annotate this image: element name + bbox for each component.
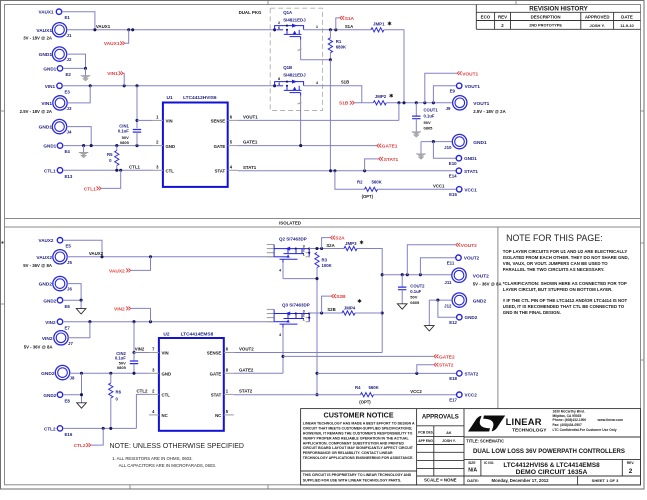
svg-text:JMP4: JMP4 [344, 306, 356, 311]
svg-text:VOUT1: VOUT1 [243, 114, 258, 119]
CTL row wire [63, 169, 153, 171]
svg-text:AK: AK [446, 431, 452, 435]
S1B wire [304, 86, 362, 103]
svg-text:E8: E8 [65, 398, 71, 403]
svg-text:VIN1: VIN1 [41, 101, 52, 107]
resistor R3 100K [315, 253, 319, 268]
svg-text:LINEAR TECHNOLOGY HAS MADE A B: LINEAR TECHNOLOGY HAS MADE A BEST EFFORT… [303, 422, 415, 426]
LT logo [468, 416, 505, 432]
svg-text:VOUT1: VOUT1 [473, 101, 489, 107]
svg-text:CIRCUIT THAT MEETS CUSTOMER-SU: CIRCUIT THAT MEETS CUSTOMER-SUPPLIED SPE… [303, 427, 413, 431]
svg-text:DUAL PKG: DUAL PKG [239, 10, 262, 15]
svg-text:0.1uF: 0.1uF [424, 114, 435, 119]
svg-text:R4: R4 [355, 385, 361, 390]
svg-text:S2B: S2B [336, 294, 346, 300]
svg-text:COUT2: COUT2 [410, 283, 425, 288]
svg-text:U1: U1 [167, 95, 173, 101]
svg-text:Fax: (408)434-0507: Fax: (408)434-0507 [553, 423, 582, 427]
GND2 row wire [70, 372, 149, 374]
connector E17 VCC2 [457, 392, 462, 397]
GND row wire [63, 145, 153, 147]
svg-text:0805: 0805 [410, 300, 420, 305]
svg-text:STAT: STAT [215, 169, 226, 174]
svg-text:VIN2: VIN2 [135, 347, 145, 352]
svg-text:IC NO.: IC NO. [484, 461, 494, 465]
svg-text:GND2: GND2 [41, 371, 55, 377]
svg-text:VIN: VIN [166, 119, 173, 124]
svg-text:E11: E11 [447, 261, 455, 266]
svg-text:SUPPLIED FOR USE WITH LINEAR T: SUPPLIED FOR USE WITH LINEAR TECHNOLOGY … [303, 478, 401, 482]
svg-text:# IF THE CTL PIN OF THE LTC441: # IF THE CTL PIN OF THE LTC4412 AND/OR L… [503, 298, 628, 303]
svg-text:E14: E14 [449, 174, 457, 179]
svg-text:NC: NC [215, 413, 221, 418]
op IC U2 LTC4414EMS8 [159, 338, 224, 431]
wire JMP1 to output row [384, 30, 404, 103]
svg-text:STAT2: STAT2 [439, 363, 454, 369]
ground (hollow) under COUT2 [397, 304, 407, 309]
svg-text:S2B: S2B [327, 307, 335, 312]
svg-text:0805: 0805 [120, 140, 130, 145]
svg-text:J4: J4 [67, 130, 72, 135]
connector J10 GND1 [452, 134, 466, 148]
svg-text:REVISION HISTORY: REVISION HISTORY [529, 6, 588, 13]
svg-text:www.linear.com: www.linear.com [597, 418, 624, 422]
connector E11 VOUT2 [420, 258, 455, 275]
title block frame [301, 409, 641, 485]
capacitor COUT2 [401, 275, 403, 287]
svg-text:2.5V - 18V @ 2A: 2.5V - 18V @ 2A [473, 109, 505, 114]
U2 SENSE wire [234, 352, 382, 354]
svg-text:R2: R2 [357, 179, 363, 184]
svg-text:S2A: S2A [326, 243, 334, 248]
ground (top ckt) at E2 [85, 68, 87, 75]
svg-text:TECHNOLOGY: TECHNOLOGY [512, 427, 547, 433]
svg-text:VOUT1: VOUT1 [462, 71, 478, 77]
svg-text:J9: J9 [446, 106, 451, 111]
GATE2 pin wire up to gates [234, 372, 283, 374]
svg-text:GATE: GATE [210, 372, 222, 377]
svg-text:J8: J8 [70, 376, 75, 381]
svg-text:CTL2: CTL2 [44, 427, 56, 432]
svg-text:SENSE: SENSE [211, 119, 226, 124]
S1A wire [304, 29, 371, 31]
svg-text:VIN1: VIN1 [107, 71, 118, 77]
svg-text:VAUX2: VAUX2 [36, 255, 52, 261]
svg-text:CTL2: CTL2 [74, 443, 86, 449]
connector E9 VOUT1 [433, 86, 456, 103]
svg-text:VIN: VIN [162, 351, 169, 356]
connector E12 GND2 [438, 300, 457, 317]
svg-text:Q2 Si7463DP: Q2 Si7463DP [279, 237, 307, 242]
svg-text:Phone: (408)432-1900: Phone: (408)432-1900 [553, 418, 587, 422]
svg-text:LTC4412HVIS6: LTC4412HVIS6 [183, 95, 217, 101]
svg-text:CIRCUIT BOARD LAYOUT MAY SIGNI: CIRCUIT BOARD LAYOUT MAY SIGNIFICANTLY A… [303, 446, 414, 450]
svg-text:DUAL LOW LOSS 36V POWERPATH CO: DUAL LOW LOSS 36V POWERPATH CONTROLLERS [473, 448, 625, 455]
svg-text:STAT2: STAT2 [239, 389, 253, 394]
svg-text:11-9-10: 11-9-10 [620, 23, 634, 28]
svg-text:E9: E9 [450, 89, 456, 94]
capacitor CIN2 [133, 322, 135, 353]
resistor R1 680K [329, 30, 331, 38]
svg-text:VIN2: VIN2 [114, 306, 125, 312]
svg-text:(OPT): (OPT) [359, 399, 371, 404]
svg-text:DATE:: DATE: [467, 478, 479, 483]
svg-text:J6: J6 [67, 287, 72, 292]
STAT2/E18 row [317, 372, 457, 374]
svg-text:VIN, VAUX, OR VOUT. JUMPERS CA: VIN, VAUX, OR VOUT. JUMPERS CAN BE USED … [503, 261, 608, 266]
svg-text:PARALLEL THE TWO CIRCUITS AS N: PARALLEL THE TWO CIRCUITS AS NECESSARY. [503, 267, 605, 272]
svg-text:DESCRIPTION: DESCRIPTION [531, 14, 561, 19]
svg-text:CTL: CTL [162, 393, 171, 398]
svg-text:ISOLATED: ISOLATED [279, 221, 301, 226]
svg-text:GATE2: GATE2 [439, 354, 455, 360]
svg-text:NOTE: UNLESS OTHERWISE SPECIFI: NOTE: UNLESS OTHERWISE SPECIFIED [110, 443, 244, 450]
svg-text:CTL1: CTL1 [44, 168, 56, 173]
svg-text:GND2: GND2 [39, 282, 53, 288]
svg-text:E4: E4 [65, 149, 71, 154]
connector J9 VOUT1 [453, 96, 467, 110]
svg-text:S1B: S1B [339, 101, 349, 107]
svg-text:JMP1: JMP1 [373, 22, 385, 27]
wire J4 to GND row [67, 127, 92, 146]
svg-text:VAUX1: VAUX1 [104, 41, 120, 47]
svg-text:5V - 36V @ 8A: 5V - 36V @ 8A [23, 263, 52, 268]
svg-text:STAT1: STAT1 [384, 157, 399, 163]
SENSE wire [238, 119, 399, 121]
ground under COUT1 [412, 132, 422, 135]
svg-text:U2: U2 [163, 332, 169, 338]
svg-text:Q1B: Q1B [283, 65, 292, 70]
svg-text:1: 1 [303, 318, 305, 322]
svg-text:VOUT2: VOUT2 [464, 256, 480, 261]
svg-text:SCALE = NONE: SCALE = NONE [424, 478, 457, 483]
svg-text:Monday, December 17, 2012: Monday, December 17, 2012 [491, 478, 549, 483]
svg-text:50V: 50V [410, 294, 417, 299]
wire J2 to gnd [67, 54, 86, 68]
svg-text:R3: R3 [322, 258, 328, 263]
VAUX2 row wire [67, 256, 274, 258]
svg-text:APPROVALS: APPROVALS [422, 415, 459, 421]
svg-text:VCC1: VCC1 [433, 184, 445, 189]
ISOLATED divider [5, 219, 641, 228]
svg-text:J10: J10 [444, 145, 452, 150]
svg-text:ALL CAPACITORS ARE IN MICROFAR: ALL CAPACITORS ARE IN MICROFARADS, 0603. [119, 463, 216, 468]
svg-text:LTC4414EMS8: LTC4414EMS8 [181, 332, 214, 338]
S2B row [309, 312, 342, 314]
svg-text:VAUX2: VAUX2 [109, 268, 125, 274]
svg-text:3V - 18V @ 2A: 3V - 18V @ 2A [23, 36, 52, 41]
svg-text:E3: E3 [65, 89, 71, 94]
svg-text:STAT: STAT [211, 393, 222, 398]
svg-text:E16: E16 [65, 432, 73, 437]
svg-text:GND: GND [162, 372, 172, 377]
svg-text:E2: E2 [66, 72, 72, 77]
svg-text:USED, IT IS RECOMENDED THAT CT: USED, IT IS RECOMENDED THAT CTL BE CONNE… [503, 304, 625, 309]
svg-text:E12: E12 [449, 320, 457, 325]
svg-text:J12: J12 [444, 304, 452, 309]
dual pkg dashed box [270, 8, 322, 110]
note box divider [497, 227, 499, 409]
svg-text:CTL2: CTL2 [137, 388, 149, 393]
svg-text:E1: E1 [65, 15, 71, 20]
svg-text:1: 1 [303, 253, 305, 257]
svg-text:APPLICATION. COMPONENT SUBSTI: APPLICATION. COMPONENT SUBSTITUTION AND … [303, 441, 405, 445]
svg-text:GATE2: GATE2 [239, 367, 254, 372]
wire VIN1 row [62, 85, 274, 87]
ground (hollow) at E8 [77, 403, 87, 408]
svg-text:GND1: GND1 [43, 144, 56, 149]
svg-text:E17: E17 [449, 398, 457, 403]
svg-text:GATE1: GATE1 [243, 140, 258, 145]
svg-text:TITLE: SCHEMATIC: TITLE: SCHEMATIC [466, 439, 504, 444]
svg-text:R6: R6 [116, 389, 122, 394]
wire Q1A gate to R1 bottom [301, 59, 331, 61]
svg-text:GND1: GND1 [39, 52, 53, 58]
svg-text:APP ENG.: APP ENG. [418, 439, 434, 443]
svg-text:VCC2: VCC2 [410, 389, 422, 394]
resistor R5 0 [116, 146, 118, 151]
svg-text:680K: 680K [336, 44, 347, 49]
svg-text:R5: R5 [107, 152, 113, 157]
svg-text:VOUT2: VOUT2 [473, 273, 489, 279]
svg-text:Si4821EDJ: Si4821EDJ [283, 18, 306, 23]
svg-text:J5: J5 [67, 260, 72, 265]
svg-text:GND2: GND2 [465, 315, 478, 320]
connector E15 VCC1 [457, 187, 462, 192]
svg-text:N/A: N/A [468, 467, 477, 473]
resistor R4 560K (OPT) [361, 393, 374, 397]
svg-text:J3: J3 [67, 106, 72, 111]
svg-text:VOUT1: VOUT1 [465, 84, 481, 89]
svg-text:PCB DES.: PCB DES. [418, 431, 434, 435]
ground (hollow) at J12 [428, 300, 430, 326]
svg-text:VOUT2: VOUT2 [239, 347, 254, 352]
svg-text:GND2: GND2 [473, 298, 487, 304]
svg-text:JOSH Y.: JOSH Y. [442, 439, 456, 443]
capacitor CIN1 [136, 86, 138, 128]
svg-text:JMP2: JMP2 [375, 94, 387, 99]
svg-text:CTL1: CTL1 [129, 165, 141, 170]
STAT pin row / R4 [234, 394, 361, 396]
svg-text:E13: E13 [65, 174, 73, 179]
svg-text:VAUX2: VAUX2 [89, 251, 104, 256]
svg-text:100K: 100K [322, 263, 333, 268]
R1 bottom vertical down to STAT row [329, 60, 331, 171]
op IC U1 LTC4412HVIS6 [163, 103, 228, 187]
svg-text:SENSE: SENSE [207, 351, 222, 356]
svg-text:2ND PROTOTYPE: 2ND PROTOTYPE [529, 23, 562, 28]
svg-text:*CLARIFICATION: SHOWN HERE AS: *CLARIFICATION: SHOWN HERE AS CONNECTED … [503, 281, 627, 286]
svg-text:GND1: GND1 [473, 140, 487, 146]
S2A row [309, 248, 344, 250]
svg-text:DATE: DATE [621, 14, 633, 19]
svg-text:GND2: GND2 [43, 298, 56, 303]
svg-text:560K: 560K [369, 385, 380, 390]
svg-text:JMP3: JMP3 [345, 241, 357, 246]
svg-text:SHEET 1 OF 3: SHEET 1 OF 3 [592, 478, 619, 483]
svg-text:LTC4412HVIS6 & LTC4414EMS8: LTC4412HVIS6 & LTC4414EMS8 [503, 462, 600, 469]
svg-text:(OPT): (OPT) [362, 194, 374, 199]
svg-text:VCC2: VCC2 [465, 393, 478, 398]
svg-text:VAUX1: VAUX1 [39, 10, 54, 15]
svg-text:VIN1: VIN1 [45, 84, 56, 89]
svg-text:E7: E7 [65, 325, 71, 330]
connector J12 GND2 [452, 293, 466, 307]
VIN2 row wire [63, 321, 274, 323]
GATE wire [238, 145, 377, 147]
svg-text:R1: R1 [336, 39, 342, 44]
svg-text:S1A: S1A [345, 16, 355, 22]
Q2 gate wire to R3 vertical [283, 278, 317, 280]
svg-text:LTC Confidential-For Customer: LTC Confidential-For Customer Use Only [553, 428, 617, 432]
svg-text:0.1uF: 0.1uF [410, 289, 421, 294]
connector J11 VOUT2 [452, 268, 466, 282]
svg-text:J11: J11 [444, 280, 452, 285]
svg-text:E10: E10 [449, 161, 457, 166]
svg-text:560K: 560K [372, 179, 383, 184]
svg-text:VAUX1: VAUX1 [36, 28, 52, 34]
svg-text:PERFORMANCE OR RELIABILITY. C: PERFORMANCE OR RELIABILITY. CONTACT LINE… [303, 451, 393, 455]
svg-text:THIS CIRCUIT IS PROPRIETARY TO: THIS CIRCUIT IS PROPRIETARY TO LINEAR TE… [303, 473, 412, 477]
svg-text:VIN2: VIN2 [42, 336, 53, 342]
svg-text:GATE1: GATE1 [382, 143, 398, 149]
svg-text:VAUX1: VAUX1 [96, 24, 111, 29]
wire to U2 VIN pin [134, 352, 149, 354]
svg-text:E15: E15 [449, 192, 457, 197]
ground (hollow) at E6 [80, 300, 82, 308]
STAT row wire to E14 [238, 170, 457, 172]
svg-text:VAUX2: VAUX2 [39, 238, 54, 243]
svg-text:ISOLATED FROM EACH OTHER. THEY: ISOLATED FROM EACH OTHER. THEY DO NOT SH… [503, 255, 629, 260]
svg-text:LAYER CIRCUIT, BUT STUFFED ON: LAYER CIRCUIT, BUT STUFFED ON BOTTOM LAY… [503, 287, 613, 292]
ground at J10 [420, 142, 422, 154]
wire E1 to VAUX1 row [62, 12, 95, 30]
svg-text:NC: NC [162, 413, 168, 418]
wire J3 to VIN1 row [67, 86, 90, 103]
svg-text:J1: J1 [67, 33, 72, 38]
svg-text:TOP LAYER CIRCUITS FOR U1 AND: TOP LAYER CIRCUITS FOR U1 AND U2 ARE ELE… [503, 249, 628, 254]
svg-text:SIZE: SIZE [468, 461, 476, 465]
svg-text:TECHNOLOGY APPLICATIONS ENGINE: TECHNOLOGY APPLICATIONS ENGINEERING FOR … [303, 456, 414, 460]
svg-text:S2A: S2A [335, 235, 345, 241]
svg-text:2.5V - 18V @ 2A: 2.5V - 18V @ 2A [20, 109, 52, 114]
svg-text:GND2: GND2 [43, 393, 56, 398]
wire up to CTL pin [136, 394, 149, 428]
svg-text:CUSTOMER NOTICE: CUSTOMER NOTICE [324, 411, 394, 420]
svg-text:STAT1: STAT1 [243, 165, 257, 170]
svg-text:GND IN THE FINAL DESIGN.: GND IN THE FINAL DESIGN. [503, 310, 561, 315]
svg-text:Si4821EDJ: Si4821EDJ [283, 73, 306, 78]
svg-text:GND: GND [166, 144, 176, 149]
output row to J11 [382, 274, 451, 276]
svg-text:APPROVED: APPROVED [585, 14, 610, 19]
svg-text:J2: J2 [67, 57, 72, 62]
svg-text:GATE: GATE [214, 144, 226, 149]
resistor R6 0 [110, 373, 112, 383]
resistor R2 560K (OPT) [335, 171, 365, 190]
output row wire to J9 [386, 102, 453, 104]
revision history table [476, 5, 640, 30]
svg-text:0805: 0805 [117, 365, 127, 370]
svg-text:DEMO CIRCUIT 1635A: DEMO CIRCUIT 1635A [516, 469, 588, 476]
svg-text:NOTE FOR THIS PAGE:: NOTE FOR THIS PAGE: [506, 233, 602, 243]
connector E10 GND1 [433, 142, 456, 159]
svg-text:HOWEVER, IT REMAINS THE CUSTOM: HOWEVER, IT REMAINS THE CUSTOMER'S RESPO… [303, 431, 413, 435]
svg-text:S1A: S1A [345, 24, 353, 29]
connector E14 STAT1 [456, 168, 461, 173]
svg-text:LINEAR: LINEAR [506, 416, 542, 427]
svg-text:GND1: GND1 [43, 66, 56, 71]
svg-text:Q1A: Q1A [283, 10, 293, 15]
wire VAUX1 row [67, 29, 275, 31]
svg-text:E5: E5 [66, 244, 72, 249]
svg-text:VCC1: VCC1 [464, 187, 477, 192]
ground (top ckt) at E4 [83, 146, 85, 153]
CTL2 row wire [63, 427, 137, 429]
svg-text:E18: E18 [449, 376, 457, 381]
svg-text:GND1: GND1 [39, 125, 53, 131]
svg-text:J7: J7 [68, 341, 73, 346]
svg-text:0805: 0805 [424, 126, 434, 131]
svg-text:VIN2: VIN2 [45, 320, 56, 325]
svg-text:REV: REV [498, 14, 507, 19]
svg-text:ECO: ECO [481, 14, 491, 19]
svg-text:CTL: CTL [166, 169, 175, 174]
svg-text:STAT2: STAT2 [465, 371, 479, 376]
svg-text:JOSH Y.: JOSH Y. [590, 23, 605, 28]
svg-text:VOUT2: VOUT2 [461, 243, 477, 249]
svg-text:50V: 50V [424, 120, 431, 125]
svg-text:REV.: REV. [627, 461, 635, 465]
svg-text:0.1uF: 0.1uF [118, 129, 129, 134]
svg-text:1. ALL RESISTORS ARE IN OHMS,: 1. ALL RESISTORS ARE IN OHMS, 0603. [112, 456, 192, 461]
wire JMP3 to output row / SENSE vertical [357, 249, 382, 353]
svg-text:CTL1: CTL1 [84, 186, 96, 192]
svg-text:5V - 36V @ 8A: 5V - 36V @ 8A [24, 344, 53, 349]
svg-text:COUT1: COUT1 [424, 107, 439, 112]
svg-text:GND1: GND1 [464, 156, 477, 161]
svg-text:VERIFY PROPER AND RELIABLE OPE: VERIFY PROPER AND RELIABLE OPERATION IN … [303, 436, 410, 440]
svg-text:Q3 Si7463DP: Q3 Si7463DP [282, 302, 310, 307]
svg-text:5V - 36V @ 8A: 5V - 36V @ 8A [473, 281, 502, 286]
svg-text:E6: E6 [65, 304, 71, 309]
svg-text:S1B: S1B [341, 80, 349, 85]
capacitor COUT1 [415, 103, 417, 116]
svg-text:2: 2 [629, 468, 633, 475]
svg-text:STAT1: STAT1 [464, 169, 478, 174]
connector E18 STAT2 [457, 371, 462, 376]
wire VIN pin [137, 119, 153, 121]
